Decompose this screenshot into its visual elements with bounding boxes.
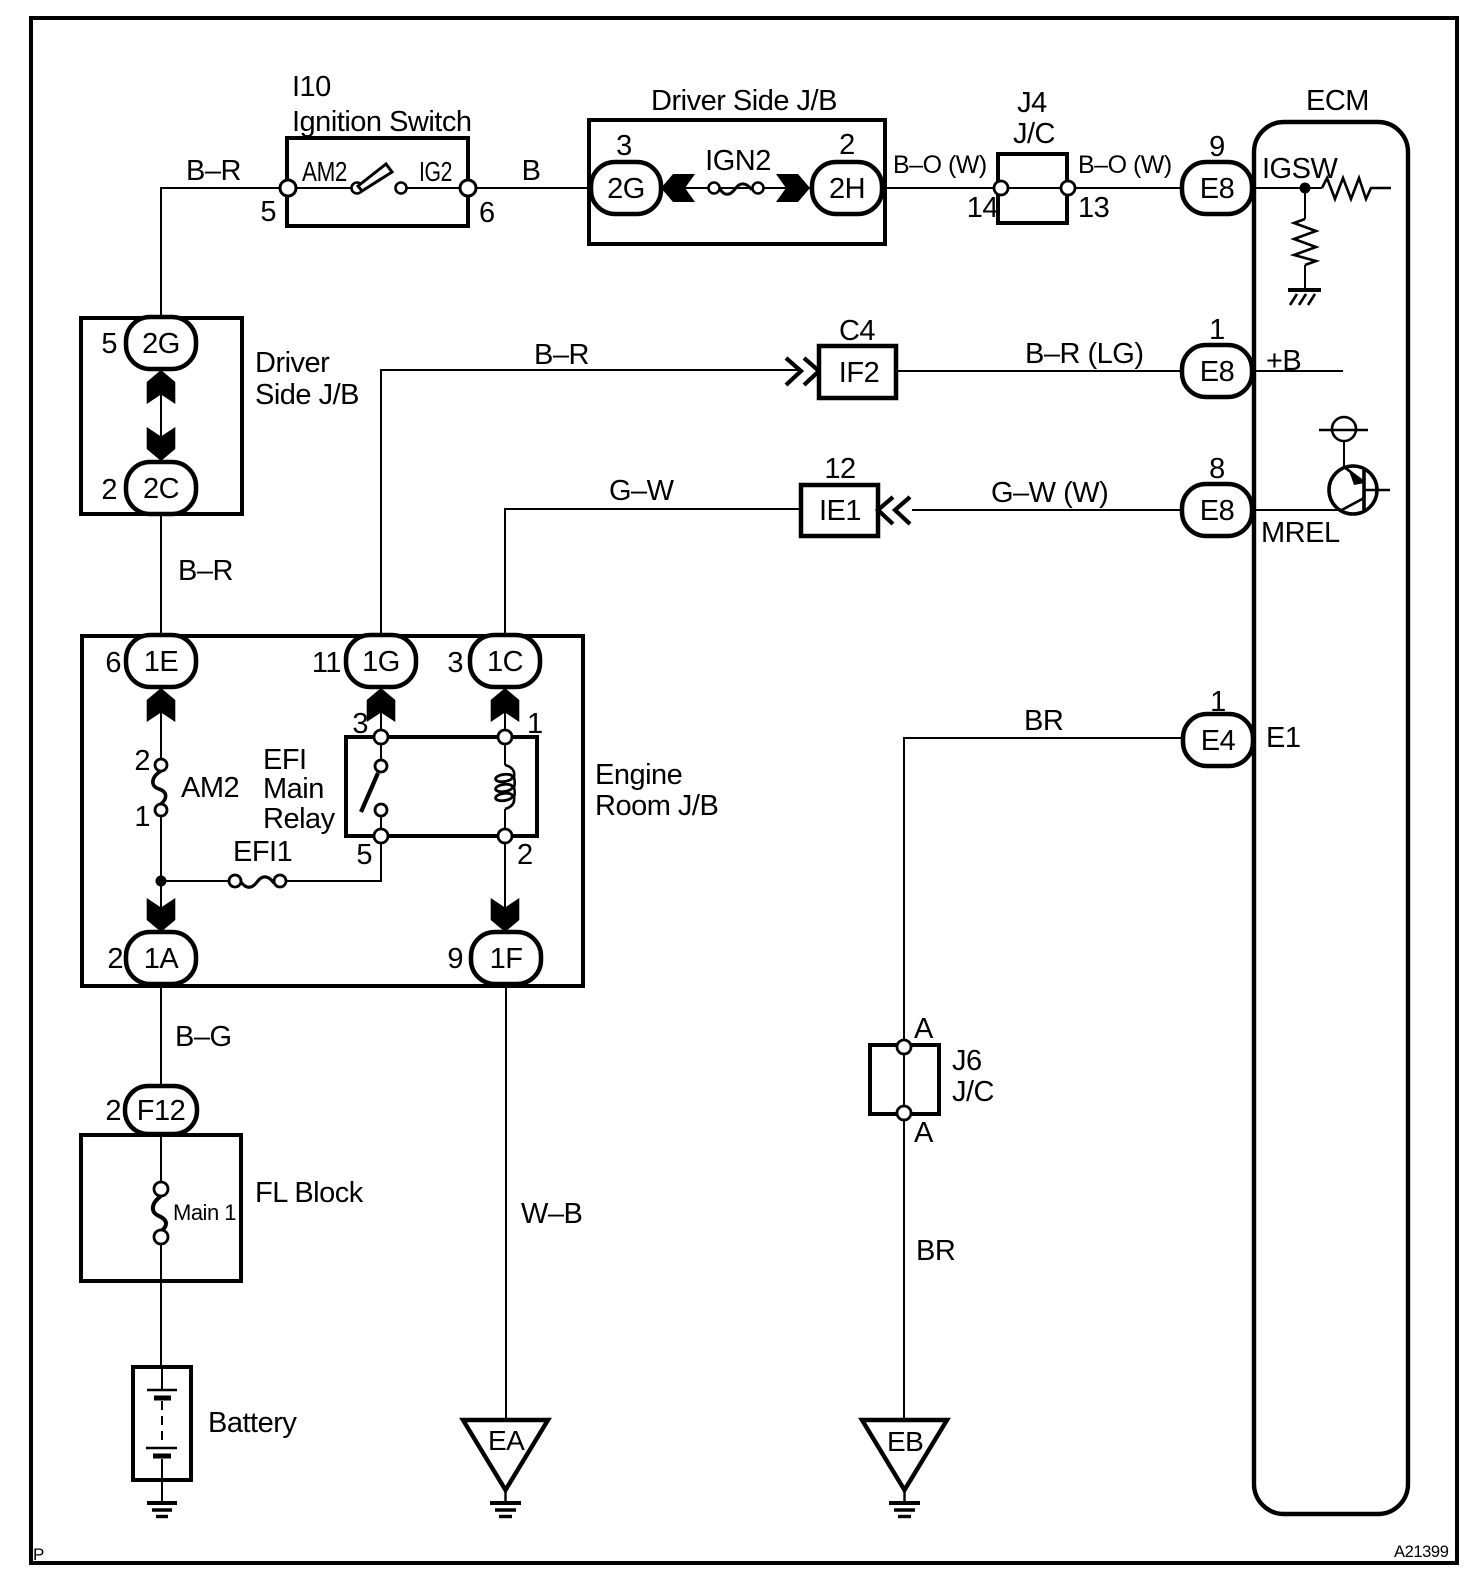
wire IG2 contact	[406, 187, 460, 189]
svg-text:FL Block: FL Block	[255, 1177, 364, 1209]
internal power symbol above transistor	[1319, 417, 1368, 467]
label I10	[292, 71, 331, 103]
label EFI1	[233, 836, 292, 868]
label J4	[1017, 87, 1047, 119]
svg-text:J4: J4	[1017, 87, 1047, 119]
svg-text:9: 9	[1209, 131, 1225, 163]
wire BR from J6 to EB	[903, 1120, 905, 1421]
svg-text:AM2: AM2	[302, 156, 347, 187]
svg-text:MREL: MREL	[1261, 517, 1340, 549]
connector 12 IE1 box	[801, 485, 878, 536]
label B-R (LG)	[1025, 338, 1143, 370]
arrow left chevron at 2G	[661, 174, 695, 202]
connector E8 pin 9 label	[1209, 131, 1225, 163]
label P	[33, 1545, 44, 1564]
connector 1C pin 3 label	[447, 647, 463, 679]
connector E8 pin 8 label	[1209, 453, 1225, 485]
svg-text:Ignition Switch: Ignition Switch	[292, 106, 472, 138]
fuse IGN2	[709, 183, 764, 195]
connector oval 1G	[346, 635, 416, 687]
EFI main relay box	[346, 737, 537, 836]
label BR lower	[916, 1235, 955, 1267]
svg-text:B–R: B–R	[534, 339, 589, 371]
label G-W (W)	[991, 477, 1108, 509]
svg-text:1F: 1F	[490, 943, 523, 975]
driver side J/B (top) box	[589, 120, 885, 244]
svg-text:2: 2	[105, 1095, 121, 1127]
connector C4 IF2 box	[819, 346, 896, 398]
svg-text:1: 1	[527, 708, 543, 740]
label Engine	[595, 759, 682, 791]
wire B-O from J4 to E8	[1075, 187, 1185, 189]
svg-text:14: 14	[967, 192, 999, 224]
relay pin 2 terminal	[498, 829, 512, 843]
J4 pin 13 terminal	[1061, 181, 1075, 195]
label IGSW	[1262, 153, 1338, 185]
wire EA to ground	[504, 1490, 506, 1502]
wire B-O from 2H to J4	[884, 187, 996, 189]
relay switch upper contact	[375, 744, 387, 772]
svg-text:BR: BR	[1024, 705, 1063, 737]
label EFI Main Relay	[263, 744, 336, 835]
label AM2 terminal	[302, 156, 347, 187]
wire Main 1 to battery	[160, 1244, 162, 1368]
label B-O (W) right	[1078, 151, 1172, 179]
svg-text:8: 8	[1209, 453, 1225, 485]
svg-text:EA: EA	[488, 1425, 525, 1456]
connector oval 1C	[470, 635, 540, 687]
connector E4 pin 1 label	[1210, 686, 1226, 718]
svg-text:9: 9	[447, 943, 463, 975]
label Driver Side J/B	[651, 85, 837, 117]
svg-text:2: 2	[107, 943, 123, 975]
wire MREL inside ECM	[1252, 509, 1341, 511]
relay pin 5 terminal	[374, 829, 388, 843]
svg-text:EFI: EFI	[263, 744, 307, 776]
svg-text:G–W (W): G–W (W)	[991, 477, 1108, 509]
wire 1C arrow to relay pin 1	[504, 712, 506, 730]
wire B-R from ignition switch to left J/B corner	[161, 188, 282, 317]
driver side J/B (left) box	[81, 318, 242, 514]
label B-G	[175, 1021, 232, 1053]
wire B from switch to driver side J/B	[476, 187, 592, 189]
pin 13 label	[1078, 192, 1109, 224]
wire EB to ground	[903, 1490, 905, 1502]
wire 1G arrow to relay pin 3	[380, 712, 382, 730]
svg-text:J6: J6	[952, 1045, 982, 1077]
AM2 pin 1 label	[134, 801, 150, 833]
arrow up chevron below 1G	[367, 688, 396, 722]
resistor IGSW horizontal	[1322, 178, 1391, 199]
label ECM	[1306, 85, 1369, 117]
svg-text:12: 12	[824, 453, 855, 485]
wire AM2 to junction	[160, 816, 162, 881]
arrow down chevron above 1F	[491, 898, 520, 932]
label C4	[839, 315, 875, 347]
switch contact circle right	[396, 183, 407, 194]
connector oval 2C (left J/B)	[126, 462, 196, 514]
pin 5 label	[260, 196, 276, 228]
label Main 1	[173, 1200, 236, 1225]
wire 1E to AM2 fuse	[160, 712, 162, 759]
wire junction to EFI1 fuse	[161, 880, 229, 882]
pin 6 terminal of ignition switch	[460, 180, 476, 196]
svg-text:2G: 2G	[607, 173, 645, 205]
label Ignition Switch	[292, 106, 472, 138]
svg-text:B–G: B–G	[175, 1021, 232, 1053]
J4 pin 14 terminal	[994, 181, 1008, 195]
wire dot to pull-down resistor	[1304, 193, 1306, 219]
arrow up chevron below 1E	[147, 688, 176, 722]
svg-text:6: 6	[105, 647, 121, 679]
svg-text:E8: E8	[1200, 173, 1234, 205]
label AM2	[181, 772, 239, 804]
label G-W	[609, 475, 675, 507]
AM2 pin 2 label	[134, 745, 150, 777]
internal ground IGSW	[1288, 290, 1321, 305]
svg-text:1E: 1E	[144, 646, 179, 678]
connector oval E8 pin 9	[1182, 162, 1252, 214]
connector 1A pin 2 label	[107, 943, 123, 975]
J6 pin A label upper	[914, 1013, 934, 1045]
label E1	[1266, 722, 1300, 754]
wire F12 to Main 1 fuse	[160, 1134, 162, 1182]
connector oval 1A	[126, 932, 196, 984]
arrow up chevron below 1C	[491, 688, 520, 722]
label B-R vertical run	[178, 555, 233, 587]
svg-text:6: 6	[479, 197, 495, 229]
svg-text:C4: C4	[839, 315, 875, 347]
svg-text:W–B: W–B	[521, 1198, 582, 1230]
svg-text:E8: E8	[1200, 495, 1234, 527]
wire EFI1 fuse to relay pin 5	[286, 843, 381, 881]
label IG2 terminal	[419, 156, 452, 187]
pin 14 label	[967, 192, 999, 224]
connector oval E8 pin 1	[1182, 345, 1252, 397]
label BR upper	[1024, 705, 1063, 737]
svg-text:E4: E4	[1201, 725, 1236, 757]
engine room J/B box	[82, 636, 583, 986]
wire W-B from 1F to EA	[505, 984, 507, 1421]
pin 5 terminal of ignition switch	[280, 180, 296, 196]
connector 2C pin 2 label	[101, 474, 117, 506]
relay switch blade	[361, 773, 378, 812]
svg-text:3: 3	[616, 130, 632, 162]
svg-text:J/C: J/C	[1013, 118, 1055, 150]
arrow up chevron below 2G	[147, 370, 176, 404]
arrow double chevron into IE1	[878, 497, 910, 524]
relay pin 1 label	[527, 708, 543, 740]
relay pin 2 label	[517, 839, 533, 871]
svg-text:B: B	[522, 155, 541, 187]
svg-text:ECM: ECM	[1306, 85, 1369, 117]
label B-R horizontal run	[534, 339, 589, 371]
label B-R	[186, 155, 241, 187]
label B-O (W) left	[893, 151, 987, 179]
fuse AM2	[153, 759, 167, 816]
battery box	[133, 1367, 191, 1480]
svg-text:1: 1	[134, 801, 150, 833]
wire relay pin 2 down to 1F	[504, 843, 506, 934]
connector 2G pin 5 label	[101, 328, 117, 360]
label Battery	[208, 1407, 297, 1439]
wire G-W (W) from E8 pin 8 to IE1	[912, 509, 1185, 511]
wire B-R from 2C down to engine room J/B 1E	[160, 514, 162, 636]
junction connector J6 box	[870, 1045, 939, 1114]
svg-text:Main 1: Main 1	[173, 1200, 236, 1225]
switch contact circle left	[352, 183, 363, 194]
svg-text:5: 5	[356, 839, 372, 871]
svg-text:IE1: IE1	[819, 495, 861, 527]
relay pin 3 label	[352, 708, 368, 740]
svg-text:+B: +B	[1266, 345, 1301, 377]
svg-text:B–R: B–R	[186, 155, 241, 187]
FL block box	[81, 1135, 241, 1281]
connector 1E pin 6 label	[105, 647, 121, 679]
resistor IGSW pull-down vertical	[1294, 219, 1316, 265]
connector oval E4 pin 1	[1183, 714, 1253, 766]
arrow down chevron above 2C	[147, 427, 176, 461]
svg-text:Engine: Engine	[595, 759, 682, 791]
fuse Main 1	[153, 1182, 168, 1244]
label FL Block	[255, 1177, 364, 1209]
battery cells	[146, 1367, 177, 1502]
label J/C (J4)	[1013, 118, 1055, 150]
svg-text:J/C: J/C	[952, 1076, 994, 1108]
J6 pin A terminal upper	[897, 1040, 911, 1054]
svg-text:I10: I10	[292, 71, 331, 103]
svg-text:2: 2	[134, 745, 150, 777]
relay pin 5 label	[356, 839, 372, 871]
svg-text:11: 11	[312, 647, 341, 679]
ground at battery	[147, 1503, 177, 1517]
svg-text:Main: Main	[263, 773, 324, 805]
svg-text:EB: EB	[887, 1426, 923, 1457]
wire +B inside ECM	[1252, 370, 1343, 372]
connector F12 pin 2 label	[105, 1095, 121, 1127]
svg-text:3: 3	[352, 708, 368, 740]
ignition switch I10 box	[287, 138, 468, 226]
wire BR from E4 corner down to J6	[904, 738, 1185, 1040]
svg-text:13: 13	[1078, 192, 1109, 224]
svg-text:Side J/B: Side J/B	[255, 379, 359, 411]
svg-text:G–W: G–W	[609, 475, 675, 507]
connector E8 pin 1 label	[1209, 314, 1225, 346]
connector 2H pin 2 label	[839, 129, 855, 161]
relay coil	[495, 744, 515, 829]
svg-text:2: 2	[839, 129, 855, 161]
connector oval 2H (driver side J/B)	[812, 162, 882, 214]
label Driver	[255, 347, 330, 379]
label 12	[824, 453, 855, 485]
svg-text:AM2: AM2	[181, 772, 239, 804]
relay pin 3 terminal	[374, 730, 388, 744]
ECM box	[1254, 122, 1408, 1514]
svg-text:2: 2	[101, 474, 117, 506]
svg-text:1C: 1C	[487, 646, 523, 678]
wire junction down to 1A	[160, 886, 162, 934]
svg-text:Battery: Battery	[208, 1407, 297, 1439]
connector oval 1F	[471, 932, 541, 984]
label IGN2	[705, 145, 771, 177]
svg-text:IG2: IG2	[419, 156, 452, 187]
node junction dot IGSW	[1300, 183, 1311, 194]
arrow double chevron into IF2	[786, 358, 819, 385]
wire B-R to IF2 with corner down to 1G	[381, 370, 800, 636]
svg-text:Driver Side J/B: Driver Side J/B	[651, 85, 837, 117]
svg-text:3: 3	[447, 647, 463, 679]
svg-text:E8: E8	[1200, 356, 1234, 388]
label J6	[952, 1045, 982, 1077]
relay switch lower contact	[375, 804, 387, 829]
connector oval F12	[125, 1086, 197, 1134]
wire inside driver side J/B	[661, 187, 812, 189]
connector 1F pin 9 label	[447, 943, 463, 975]
svg-text:1G: 1G	[362, 646, 400, 678]
svg-text:EFI1: EFI1	[233, 836, 292, 868]
connector oval 2G (driver side J/B)	[591, 162, 661, 214]
label B	[522, 155, 541, 187]
svg-text:A21399: A21399	[1394, 1543, 1449, 1561]
svg-text:2H: 2H	[829, 173, 865, 205]
fuse EFI1	[229, 875, 286, 887]
ground at EB	[889, 1503, 920, 1517]
label Room J/B	[595, 790, 718, 822]
svg-text:B–R: B–R	[178, 555, 233, 587]
connector 2G pin 3 label	[616, 130, 632, 162]
svg-text:E1: E1	[1266, 722, 1300, 754]
svg-text:2G: 2G	[142, 328, 180, 360]
svg-text:2C: 2C	[143, 473, 179, 505]
connector oval E8 pin 8	[1182, 484, 1252, 536]
ground connector EB triangle	[862, 1420, 947, 1490]
wire B-R (LG) from IF2 to E8 pin 1	[898, 370, 1185, 372]
junction connector J4 box	[998, 154, 1068, 223]
svg-text:Driver: Driver	[255, 347, 330, 379]
svg-text:IGN2: IGN2	[705, 145, 771, 177]
connector oval 2G (left J/B)	[126, 317, 196, 369]
wire G-W corner down to 1C	[505, 509, 801, 636]
connector 1G pin 11 label	[312, 647, 341, 679]
svg-text:Room J/B: Room J/B	[595, 790, 718, 822]
transistor MREL driver	[1329, 466, 1390, 514]
label Side J/B	[255, 379, 359, 411]
svg-text:1A: 1A	[144, 943, 180, 975]
relay pin 1 terminal	[498, 730, 512, 744]
switch blade	[358, 164, 392, 191]
wire IGSW inside ECM	[1252, 187, 1322, 189]
svg-text:B–O (W): B–O (W)	[893, 151, 987, 179]
svg-text:A: A	[914, 1117, 934, 1149]
svg-text:B–R (LG): B–R (LG)	[1025, 338, 1143, 370]
svg-text:Relay: Relay	[263, 803, 336, 835]
connector oval 1E	[126, 635, 196, 687]
ground at EA	[490, 1503, 521, 1517]
J6 pin A terminal lower	[897, 1106, 911, 1120]
label J/C (J6)	[952, 1076, 994, 1108]
wire B-G from 1A to F12	[160, 984, 162, 1087]
svg-text:B–O (W): B–O (W)	[1078, 151, 1172, 179]
arrow down chevron above 1A	[147, 898, 176, 932]
svg-text:1: 1	[1209, 314, 1225, 346]
label MREL	[1261, 517, 1340, 549]
J6 pin A label lower	[914, 1117, 934, 1149]
wire AM2 contact	[296, 187, 351, 189]
pin 6 label	[479, 197, 495, 229]
svg-text:2: 2	[517, 839, 533, 871]
svg-text:P: P	[33, 1545, 44, 1564]
svg-text:F12: F12	[137, 1095, 185, 1127]
label +B	[1266, 345, 1301, 377]
wire between 2G and 2C	[160, 369, 162, 462]
svg-text:5: 5	[260, 196, 276, 228]
arrow right chevron at 2H	[776, 174, 810, 202]
svg-text:IF2: IF2	[839, 357, 879, 389]
label A21399	[1394, 1543, 1449, 1561]
node junction dot at AM2/EFI1	[156, 876, 167, 887]
label W-B	[521, 1198, 582, 1230]
svg-text:5: 5	[101, 328, 117, 360]
wire resistor to internal ground	[1304, 265, 1306, 289]
svg-text:BR: BR	[916, 1235, 955, 1267]
svg-text:A: A	[914, 1013, 934, 1045]
ground connector EA triangle	[463, 1420, 548, 1490]
